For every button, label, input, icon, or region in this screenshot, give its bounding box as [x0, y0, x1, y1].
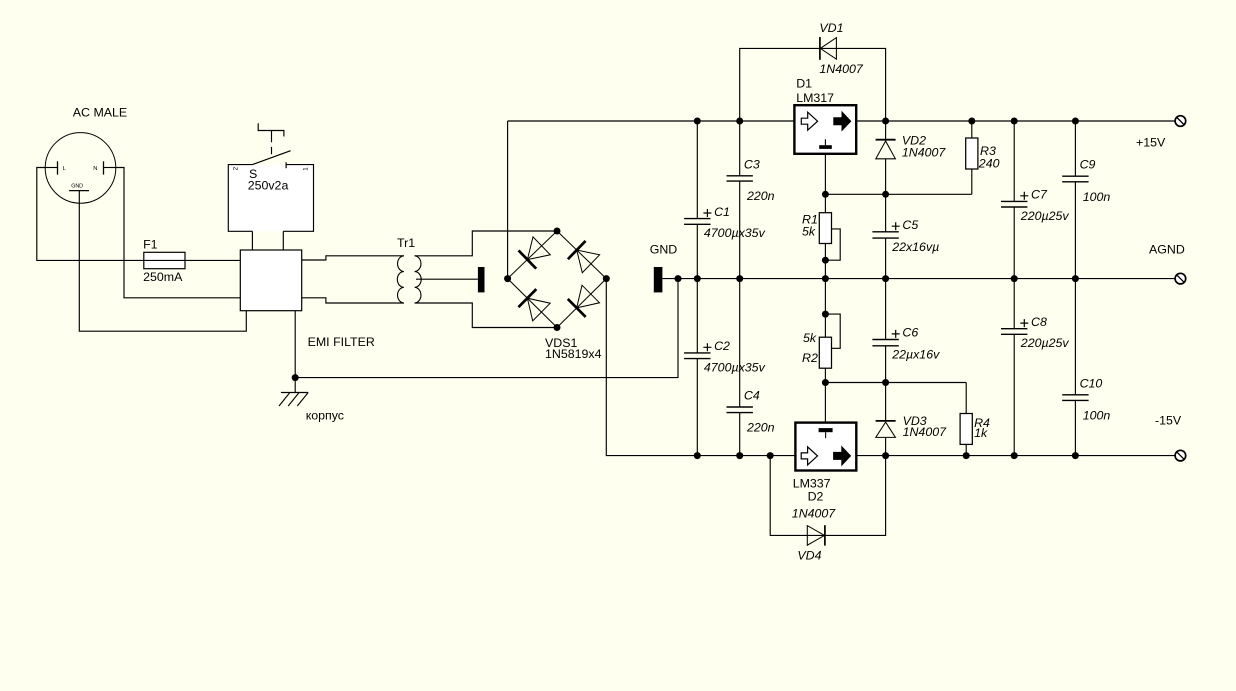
C7 labels	[1020, 188, 1070, 223]
capacitor C2	[684, 279, 710, 456]
diode VD1	[820, 37, 837, 60]
svg-text:1N4007: 1N4007	[792, 507, 837, 521]
wire VD1 bypass loop	[740, 48, 886, 121]
bridge VDS1 edge wires	[508, 231, 607, 328]
resistor R4 1k	[960, 383, 972, 456]
wire GND to R2	[824, 279, 826, 315]
VD4 label	[797, 548, 821, 562]
wire bridge- to -raw rail	[606, 279, 697, 456]
R1 label	[802, 212, 818, 226]
svg-text:1N4007: 1N4007	[902, 146, 947, 160]
svg-text:N: N	[93, 166, 97, 172]
EMI FILTER label	[308, 335, 375, 349]
VDS1 value 1N5819x4	[545, 347, 602, 361]
node chassis junction	[292, 374, 299, 381]
EMI filter box	[240, 250, 301, 311]
svg-text:F1: F1	[143, 238, 158, 252]
svg-text:VD1: VD1	[819, 21, 843, 35]
-15V label	[1155, 414, 1182, 428]
diode VD3	[876, 421, 896, 438]
bridge diode bottom-left	[518, 289, 550, 321]
switch S body box	[228, 165, 313, 232]
junction dots GND rail	[675, 275, 1079, 282]
R3 value 240	[978, 157, 1000, 171]
svg-text:EMI FILTER: EMI FILTER	[308, 335, 375, 349]
svg-text:1N4007: 1N4007	[819, 62, 864, 76]
svg-text:C8: C8	[1031, 315, 1047, 329]
svg-text:240: 240	[978, 157, 1000, 171]
svg-text:250mA: 250mA	[143, 270, 183, 284]
R3 label	[980, 144, 996, 158]
D1 label	[796, 76, 812, 90]
svg-text:Tr1: Tr1	[397, 236, 415, 250]
svg-text:22µx16v: 22µx16v	[891, 348, 940, 362]
F1 value 250mA	[143, 270, 183, 284]
VD2 label	[902, 134, 926, 148]
diode VD2	[876, 140, 896, 159]
svg-text:1: 1	[303, 167, 310, 171]
svg-text:C5: C5	[902, 218, 918, 232]
fuse F1	[144, 252, 241, 268]
wire L-pin to fuse	[37, 168, 144, 261]
+15V label	[1136, 136, 1166, 150]
R4 label	[974, 416, 990, 430]
capacitor C6	[872, 279, 898, 383]
center-tap terminal bar	[478, 267, 485, 292]
svg-text:D2: D2	[808, 489, 824, 503]
AGND label	[1149, 243, 1185, 257]
svg-text:C9: C9	[1080, 158, 1096, 172]
Tr1 label	[397, 236, 415, 250]
svg-text:100n: 100n	[1083, 190, 1111, 204]
capacitor C9	[1062, 121, 1088, 279]
R4 value 1k	[974, 426, 988, 440]
svg-text:LM317: LM317	[796, 91, 834, 105]
regulator U1 LM317 box	[794, 105, 856, 154]
S value 250v2a	[248, 179, 289, 193]
C8 labels	[1020, 315, 1070, 350]
svg-text:-15V: -15V	[1155, 414, 1182, 428]
junction dots adj nets	[822, 191, 889, 386]
svg-text:4700µx35v: 4700µx35v	[704, 226, 766, 240]
VD1 value 1N4007	[819, 62, 864, 76]
VD1 label	[819, 21, 843, 35]
svg-text:C10: C10	[1080, 376, 1103, 390]
svg-text:4700µx35v: 4700µx35v	[704, 361, 766, 375]
svg-text:R2: R2	[802, 351, 818, 365]
svg-text:1N5819x4: 1N5819x4	[545, 347, 602, 361]
LM337 adj mark	[819, 428, 833, 438]
terminal +15V	[1175, 116, 1186, 127]
svg-text:GND: GND	[71, 184, 83, 190]
bridge diode top-right	[568, 241, 600, 273]
transformer Tr1 primary winding	[397, 256, 404, 303]
bridge diode bottom-right	[568, 285, 600, 317]
node bridge - (right)	[603, 275, 610, 282]
plug pin GND	[69, 184, 89, 191]
wire VD4 loop	[770, 456, 885, 536]
svg-text:C2: C2	[714, 339, 730, 353]
svg-text:1N4007: 1N4007	[903, 425, 948, 439]
svg-text:5k: 5k	[802, 224, 816, 238]
svg-text:C6: C6	[902, 326, 918, 340]
D2 label	[808, 489, 824, 503]
diode VD4	[807, 525, 825, 545]
terminal AGND	[1175, 273, 1186, 284]
svg-text:5k: 5k	[803, 331, 817, 345]
svg-text:C1: C1	[714, 205, 730, 219]
wire GND rail	[662, 278, 1175, 280]
wire VD3 leads	[885, 383, 887, 456]
svg-text:2: 2	[232, 166, 239, 170]
GND label	[650, 243, 678, 257]
capacitor C7	[1001, 121, 1027, 279]
korpus label	[306, 409, 344, 423]
wire LM317 adj net	[825, 154, 971, 195]
LM317 adj mark	[819, 139, 832, 149]
transformer Tr1 secondary winding	[415, 256, 422, 303]
junction dots -rail	[694, 452, 1079, 459]
wire GND-pin to EMI filter	[79, 191, 246, 332]
node R1 bottom	[822, 257, 829, 264]
plug pin N	[93, 161, 115, 174]
bridge diode top-left	[519, 237, 551, 269]
wire VD2 leads	[885, 121, 887, 194]
wire chassis to GND rail	[295, 279, 678, 378]
VD4 value 1N4007	[792, 507, 837, 521]
wire N-pin to EMI filter	[116, 168, 241, 298]
wire -15V rail right	[856, 455, 1175, 457]
C5 labels	[891, 218, 939, 254]
wire EMI to Tr1 primary top	[302, 256, 404, 260]
svg-text:220n: 220n	[746, 421, 775, 435]
svg-text:AGND: AGND	[1149, 243, 1185, 257]
wire Tr1 secondary top to bridge	[415, 231, 557, 256]
chassis ground symbol (korpus)	[279, 378, 308, 406]
wire EMI to chassis node	[294, 311, 296, 378]
svg-text:22x16vµ: 22x16vµ	[891, 240, 939, 254]
wire EMI to Tr1 primary bottom	[302, 298, 404, 303]
switch pin label 1	[303, 167, 310, 171]
VD3 value 1N4007	[903, 425, 948, 439]
LM337 label	[793, 476, 831, 490]
svg-text:1k: 1k	[974, 426, 988, 440]
C4 labels	[744, 389, 775, 435]
switch lever contact	[252, 151, 290, 169]
wire +raw rail left	[508, 120, 795, 122]
C6 labels	[891, 326, 940, 362]
LM317 output arrow	[834, 112, 851, 130]
S label	[249, 167, 257, 181]
svg-text:LM337: LM337	[793, 476, 831, 490]
svg-text:AC MALE: AC MALE	[73, 106, 127, 120]
C1 labels	[703, 205, 765, 240]
svg-text:250v2a: 250v2a	[248, 179, 289, 193]
terminal -15V	[1175, 450, 1186, 461]
svg-text:VD4: VD4	[797, 548, 821, 562]
resistor R2 (5k trimmer)	[819, 314, 840, 382]
svg-text:GND: GND	[650, 243, 678, 257]
wire -raw rail	[697, 455, 795, 457]
svg-text:D1: D1	[796, 76, 812, 90]
C10 labels	[1080, 376, 1111, 422]
svg-text:100n: 100n	[1083, 409, 1111, 423]
C3 labels	[744, 157, 775, 203]
F1 label	[143, 238, 158, 252]
svg-text:C4: C4	[744, 389, 760, 403]
wire LM337 adj net	[825, 383, 966, 423]
capacitor C10	[1062, 279, 1088, 456]
VD3 label	[903, 414, 927, 428]
VDS1 label	[545, 336, 577, 350]
resistor R1 (5k trimmer)	[819, 194, 840, 260]
capacitor C8	[1001, 279, 1027, 456]
svg-text:C3: C3	[744, 157, 760, 171]
resistor R3 240	[966, 121, 978, 194]
plug pin L	[46, 161, 67, 174]
wire switch legs to EMI filter	[252, 231, 283, 250]
node R2 top	[822, 311, 829, 318]
LM337 output arrow	[834, 447, 851, 465]
AC mains plug connector (AC MALE)	[45, 133, 116, 204]
svg-text:корпус: корпус	[306, 409, 344, 423]
switch actuator bracket	[258, 123, 284, 154]
wire Tr1 center tap	[416, 278, 478, 280]
wire R1 to GND rail	[824, 260, 826, 278]
junction dots +rail	[694, 118, 1079, 125]
R2 value 5k	[803, 331, 817, 345]
svg-text:220µ25v: 220µ25v	[1020, 209, 1070, 223]
LM317 label	[796, 91, 834, 105]
regulator U2 LM337 box	[795, 423, 856, 471]
capacitor C3	[727, 121, 753, 279]
C9 labels	[1080, 158, 1111, 204]
R2 label	[802, 351, 818, 365]
node bridge bottom	[554, 324, 561, 331]
svg-text:+15V: +15V	[1136, 136, 1166, 150]
node bridge top	[554, 228, 561, 235]
wire +15V rail right	[856, 120, 1175, 122]
capacitor C1	[684, 121, 710, 279]
wire Tr1 secondary bottom to bridge	[415, 303, 557, 328]
R1 value 5k	[802, 224, 816, 238]
C2 labels	[703, 339, 765, 374]
GND terminal bar	[654, 267, 663, 292]
node bridge + (left)	[504, 275, 511, 282]
svg-text:C7: C7	[1031, 188, 1048, 202]
AC MALE label	[73, 106, 127, 120]
switch pin label 2	[232, 166, 239, 170]
capacitor C5	[872, 194, 898, 278]
wire bridge+ to +raw rail	[507, 121, 509, 279]
capacitor C4	[727, 279, 753, 456]
LM337 input arrow	[801, 447, 817, 465]
VD2 value 1N4007	[902, 146, 947, 160]
svg-text:220µ25v: 220µ25v	[1020, 336, 1070, 350]
LM317 input arrow	[801, 112, 817, 130]
svg-text:220n: 220n	[746, 189, 775, 203]
